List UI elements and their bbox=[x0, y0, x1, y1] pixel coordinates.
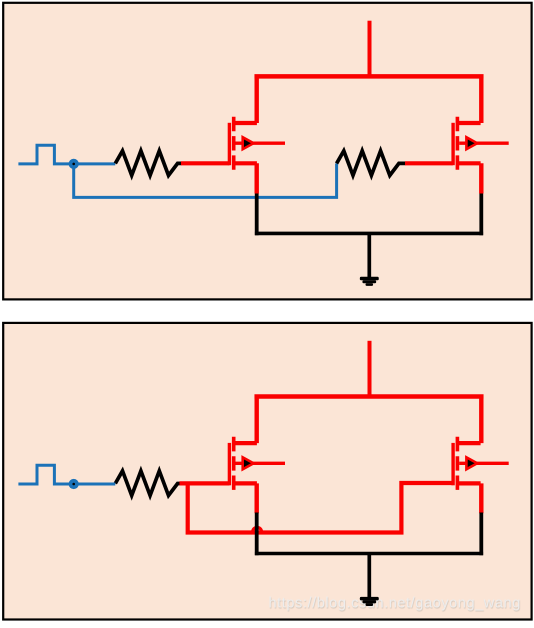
svg-text:https://blog.csdn.net/gaoyong_: https://blog.csdn.net/gaoyong_wang bbox=[269, 595, 521, 611]
